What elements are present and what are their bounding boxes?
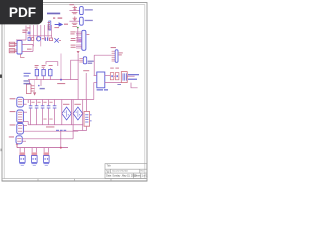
- sheet bottom inner line full width: [2, 178, 147, 180]
- connector P1 (mains plug upper): [9, 42, 17, 46]
- capacitor C11: [115, 73, 119, 80]
- wire junction riser: [60, 131, 62, 147]
- transformer T1: [84, 100, 90, 131]
- wire C2 to F2: [69, 20, 79, 22]
- sheet inner border frame: [4, 5, 145, 179]
- wire rail riser: [60, 54, 62, 80]
- J2 inner pin marks: [78, 39, 81, 42]
- wire relay feed: [16, 26, 26, 41]
- varistor RV1: [20, 148, 26, 163]
- capacitor C3: [35, 69, 38, 75]
- net label mid: [56, 130, 66, 131]
- C3 C4 C5 value text: [35, 65, 53, 68]
- wire D7 lead: [59, 39, 61, 41]
- wire T2 output: [127, 75, 134, 77]
- J7 reference text: [10, 124, 16, 125]
- wire J7 pin long: [23, 130, 78, 132]
- svg-text:Document Number: Document Number: [112, 169, 128, 172]
- +5V net text under junction: [57, 83, 65, 84]
- capacitor C16: [53, 100, 57, 125]
- wire bridge bottom loop: [73, 125, 87, 131]
- frame zone ticks bottom: [38, 179, 111, 181]
- wire mains bottom rail: [17, 147, 68, 149]
- diode D5: [28, 38, 30, 41]
- wire J4 drop to U1: [93, 55, 95, 75]
- J2 pin 1 label right: [87, 33, 90, 36]
- J6 reference text: [10, 111, 16, 112]
- svg-text:1 of 1: 1 of 1: [142, 176, 148, 178]
- wire relay output jog: [22, 44, 33, 51]
- wire top bus: [28, 99, 94, 101]
- C10 C11 value text: [110, 68, 119, 69]
- wire cap leads: [37, 68, 50, 80]
- capacitor C7: [46, 37, 48, 41]
- wire U1 left pins: [94, 76, 97, 83]
- cap bank value labels: [31, 102, 52, 120]
- pin number marks feed: [28, 32, 31, 35]
- capacitor C1 with polarity marks: [73, 6, 77, 11]
- RV2 label text: [32, 163, 38, 166]
- node junction dot 2: [60, 147, 62, 149]
- wire J8 pin short: [22, 140, 26, 142]
- title block row line 2: [105, 172, 147, 174]
- off-page connector arrow: [55, 22, 64, 26]
- U1 reference label text: [97, 89, 103, 90]
- connector J6 pin hatch: [18, 112, 22, 121]
- net label left of caps: [24, 73, 31, 77]
- title block column divider (Size): [110, 169, 112, 173]
- transistor Q1: [37, 37, 41, 41]
- connector J5 pin hatch: [18, 99, 22, 104]
- wire U1 down to bus: [93, 83, 95, 100]
- wire J6 pins out: [23, 112, 28, 125]
- fuse F1 value text: [85, 9, 93, 10]
- net label text R row: [22, 30, 27, 33]
- svg-text:Date: Sunday , May 15, 2011: Date: Sunday , May 15, 2011: [106, 175, 136, 178]
- net label right drop: [83, 70, 89, 71]
- wire BR1 left leg: [61, 100, 63, 125]
- sheet title text (blue): [47, 13, 60, 15]
- wire stub near J9: [40, 80, 42, 86]
- J4 label text: [119, 52, 123, 53]
- diode D6: [32, 38, 34, 41]
- varistor RV3: [44, 148, 50, 163]
- connector J7 body: [17, 123, 24, 134]
- wire BR2 left leg: [72, 100, 74, 125]
- wire to header J9: [28, 80, 30, 85]
- net tick label on wire: [117, 84, 121, 85]
- resistor R3 value label: [42, 38, 45, 39]
- RV1 label text: [20, 163, 26, 166]
- svg-text:Title: Title: [107, 165, 112, 168]
- J2 pin wires group 1: [76, 32, 82, 35]
- diode pair D7 (bowtie): [54, 38, 58, 42]
- resistor R4: [49, 38, 52, 41]
- connector J5 body: [17, 97, 24, 107]
- T1 side marks: [90, 114, 92, 121]
- wire U1 right pins: [105, 76, 122, 83]
- frame zone tick left margin lower: [0, 149, 2, 152]
- frame zone tick left margin: [0, 75, 2, 78]
- wire T2 lower jog: [131, 83, 138, 88]
- power symbol arrow down 2: [33, 80, 36, 96]
- connector J10 pin marks: [48, 22, 50, 29]
- net label text under J9: [40, 88, 45, 89]
- net label below arrow: [54, 27, 59, 28]
- wire J7 pin short: [23, 125, 27, 127]
- wire C1 to F1: [69, 10, 79, 12]
- ground GND1: [72, 13, 78, 14]
- capacitor C5: [49, 69, 52, 75]
- optocoupler T2 body: [121, 72, 127, 83]
- fuse F1 body: [80, 7, 84, 15]
- wire to J3: [71, 60, 80, 79]
- sheet outer border frame: [2, 3, 147, 182]
- title block outline: [105, 164, 147, 179]
- net label after arrow: [64, 24, 68, 25]
- J2 net labels column: [70, 31, 75, 47]
- title block row line 1: [105, 168, 147, 170]
- capacitor C2 with polarity marks: [73, 16, 77, 21]
- J5 reference text: [10, 98, 16, 99]
- J3 label text: [88, 61, 94, 62]
- svg-text:Sheet: Sheet: [134, 175, 140, 178]
- wire relay lower jog: [21, 54, 25, 58]
- BR2 reference text: [74, 104, 80, 105]
- connector J4 pin hatch: [112, 51, 116, 61]
- capacitor C14: [41, 100, 45, 125]
- power net label second block: [24, 80, 31, 84]
- pin number text: [53, 17, 62, 18]
- node junction (green): [77, 27, 79, 29]
- relay K1 body: [17, 41, 22, 55]
- wire rail left hook: [16, 144, 18, 147]
- capacitor C10: [110, 73, 114, 80]
- net label above C1: [69, 4, 74, 5]
- connector J6 body: [17, 110, 24, 123]
- capacitor C15: [47, 100, 51, 125]
- node label near J9: [38, 85, 40, 87]
- connector J3 body: [83, 57, 86, 64]
- BR1 reference text: [63, 104, 69, 105]
- T2 label text: [128, 74, 139, 80]
- wire bottom bus: [28, 124, 82, 126]
- wire BR1 right leg: [70, 100, 72, 125]
- net label under relay: [27, 49, 32, 50]
- ground GND3: [72, 26, 77, 28]
- svg-text:Rev: Rev: [141, 170, 144, 172]
- title block column divider (Rev): [139, 169, 141, 173]
- wire bus left leg: [27, 100, 29, 104]
- power symbol arrow down: [77, 51, 80, 54]
- wire J2 feed vertical: [77, 28, 79, 43]
- J8 reference text: [9, 136, 14, 137]
- connector J10 body: [49, 21, 51, 30]
- wire long to J4: [94, 54, 111, 56]
- node junction dot: [60, 79, 62, 81]
- capacitor C4: [42, 69, 45, 75]
- wire bus vertical segments under badge: [30, 25, 51, 41]
- connector P2 (mains plug lower): [9, 49, 17, 53]
- capacitor C13: [35, 100, 39, 125]
- net label beside feed: [27, 27, 31, 28]
- wire C10-C11 link: [114, 75, 116, 77]
- J4 reference text: [111, 47, 116, 48]
- fuse F2 body: [80, 17, 84, 25]
- wire loop to J8 line: [72, 131, 74, 139]
- connector J3 pin hatch: [79, 58, 83, 62]
- svg-text:PDF: PDF: [9, 5, 36, 20]
- wire drop to cap bank: [77, 54, 79, 100]
- net text below bottom bus: [46, 126, 54, 127]
- bridge rectifier BR1: [62, 107, 72, 120]
- wire stubs below component row: [34, 41, 41, 47]
- RV3 label text: [44, 163, 50, 166]
- wire BR2 right leg: [82, 100, 84, 125]
- connector J2 body: [82, 30, 86, 50]
- wire +5V rail: [28, 79, 78, 81]
- ground GND2: [72, 23, 78, 24]
- wire corner feed: [46, 62, 58, 66]
- TITLE BLOCK: [105, 164, 147, 179]
- wire J8 pin long: [22, 138, 73, 140]
- connector J9 (3-pin): [26, 84, 34, 93]
- wire horizontal cross bus: [27, 35, 52, 37]
- capacitor C12: [29, 100, 33, 125]
- bridge rectifier BR2: [73, 107, 83, 120]
- sheet bottom heavy border line: [2, 180, 148, 182]
- connector J7 pin hatch: [18, 126, 22, 132]
- J2 pin wires group 3: [76, 45, 82, 48]
- connector J8 pin hatch: [17, 138, 21, 141]
- PDF badge: [0, 0, 43, 24]
- title block column divider (Sheet): [133, 173, 135, 178]
- connector J4 body: [115, 50, 118, 63]
- fuse F2 value text: [85, 20, 93, 21]
- relay U1 body: [97, 72, 105, 88]
- connector J8 body: [16, 136, 22, 144]
- wire drop right: [85, 73, 87, 100]
- J2 pin wires group 2: [76, 38, 82, 43]
- varistor RV2: [32, 148, 38, 163]
- wire J5 pins out: [23, 100, 28, 105]
